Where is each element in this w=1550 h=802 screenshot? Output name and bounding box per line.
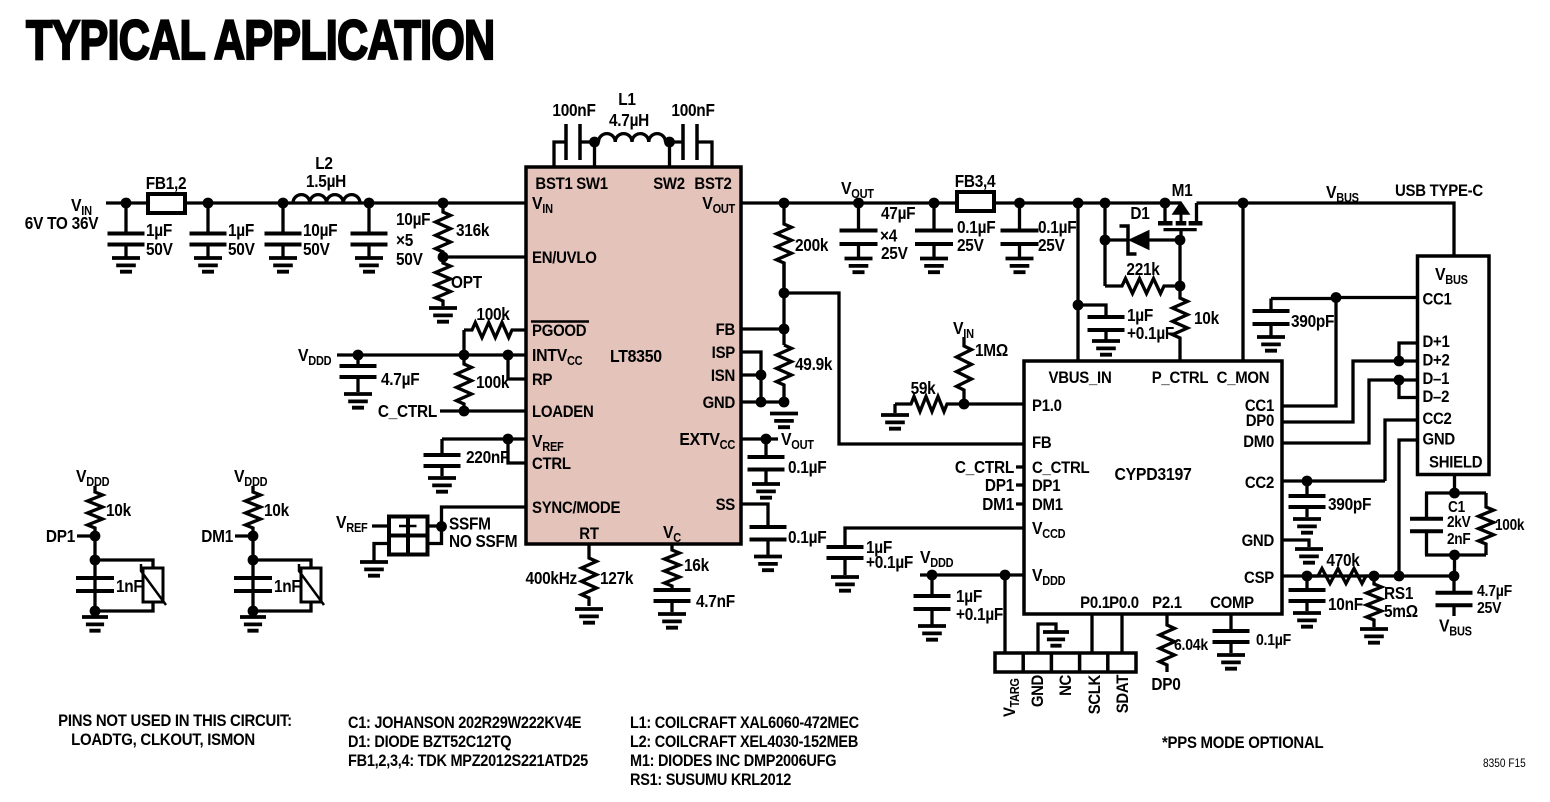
svg-text:4.7nF: 4.7nF: [696, 592, 735, 611]
svg-text:GND: GND: [1242, 532, 1274, 550]
wire VREF to switch: [372, 524, 389, 527]
wire switch gnd: [374, 544, 389, 562]
ground divider: [770, 414, 798, 428]
svg-text:59k: 59k: [911, 379, 937, 398]
wire divider mid: [782, 262, 785, 345]
junction SSFM: [436, 521, 447, 532]
wire cap lead: [367, 245, 370, 257]
svg-text:D+2: D+2: [1423, 352, 1450, 370]
svg-text:390pF: 390pF: [1328, 495, 1371, 514]
wire cap lead: [764, 439, 767, 455]
wire SS: [741, 504, 768, 525]
svg-text:USB TYPE-C: USB TYPE-C: [1395, 182, 1484, 200]
svg-text:SYNC/MODE: SYNC/MODE: [532, 499, 621, 517]
wire cap lead: [440, 466, 443, 476]
wire cap lead: [356, 355, 359, 364]
svg-text:C_CTRL: C_CTRL: [1032, 459, 1090, 477]
connector USB TYPE-C body: [1418, 256, 1490, 475]
svg-text:RS1: RS1: [1384, 584, 1413, 603]
svg-text:L2: L2: [315, 154, 333, 173]
junction DP1 top: [90, 555, 101, 566]
inductor L2: [293, 195, 360, 203]
wire INTVCC: [337, 353, 526, 356]
junction FB pin: [779, 324, 790, 335]
resistor 10k DM1: [246, 486, 261, 536]
wire cap to SW1: [580, 140, 595, 143]
junction RS1 top: [1369, 571, 1380, 582]
junction SW1: [589, 137, 600, 148]
wire cap lead: [932, 203, 935, 231]
wire switch no-ssfm link: [428, 527, 442, 544]
svg-text:DM1: DM1: [982, 495, 1014, 514]
svg-text:100k: 100k: [1495, 517, 1525, 534]
wire SHIELD stub: [1453, 476, 1456, 493]
wire VCCD: [845, 528, 1024, 545]
capacitor 10nF: [1289, 590, 1326, 601]
wire cap lead: [1229, 642, 1232, 653]
capacitor 4.7nF VC: [654, 590, 691, 601]
svg-text:LOADTG, CLKOUT, ISMON: LOADTG, CLKOUT, ISMON: [71, 731, 255, 749]
capacitor 1nF DM1: [234, 578, 272, 591]
junction DM1 bottom: [248, 606, 259, 617]
capacitor 1uF+0.1uF VCCD: [827, 547, 864, 558]
junction P1.0: [959, 399, 970, 410]
svg-text:10k: 10k: [264, 501, 290, 520]
wire varistor top DP1: [95, 560, 153, 568]
resistor 10k DP1: [88, 486, 103, 536]
svg-text:6.04k: 6.04k: [1174, 636, 1209, 654]
svg-text:RP: RP: [532, 371, 553, 389]
wire CC2 link: [1385, 420, 1417, 481]
wire VBUS rail: [1197, 203, 1455, 257]
svg-text:50V: 50V: [146, 240, 173, 259]
resistor 6.04k: [1160, 614, 1175, 672]
wire COMP: [1229, 614, 1232, 629]
svg-text:10nF: 10nF: [1328, 595, 1363, 614]
capacitor C1 2kV 2nF: [1410, 519, 1443, 531]
junction 0.1uF tap b: [1014, 198, 1025, 209]
ground 47uF: [845, 259, 873, 273]
junction D1 riser: [1100, 198, 1111, 209]
svg-text:NC: NC: [1057, 674, 1075, 696]
wire DM1 stub: [235, 534, 253, 537]
svg-text:200k: 200k: [795, 236, 829, 255]
wire D-1 link: [1282, 380, 1417, 443]
wire varistor bottom DP1: [95, 602, 153, 611]
ground input cap3: [269, 258, 297, 272]
wire cap lead: [1305, 576, 1308, 588]
wire CTRL bracket: [508, 439, 526, 463]
capacitor 0.1uF COMP: [1213, 631, 1250, 642]
svg-text:4.7µF: 4.7µF: [1477, 582, 1512, 600]
ground 390pF CC2: [1293, 519, 1321, 533]
wire shield net top: [1425, 491, 1486, 494]
capacitor 0.1uF 25V #2: [1001, 231, 1039, 245]
wire cap lead: [281, 245, 284, 257]
ground RS1: [1360, 629, 1388, 643]
svg-text:SW1: SW1: [576, 175, 608, 193]
wire VOUT rail left: [741, 201, 957, 204]
svg-text:FB: FB: [716, 321, 735, 339]
svg-text:FB1,2,3,4: TDK MPZ2012S221ATD2: FB1,2,3,4: TDK MPZ2012S221ATD25: [348, 752, 589, 770]
wire cap lead: [1104, 330, 1107, 340]
wire GND cypd: [1282, 540, 1309, 547]
svg-text:D1: D1: [1130, 204, 1149, 223]
wire cap lead: [930, 609, 933, 625]
wire VIN rail: [106, 201, 526, 204]
capacitor 390pF CC2: [1289, 496, 1326, 507]
junction FB out: [203, 198, 214, 209]
svg-text:390pF: 390pF: [1291, 312, 1334, 331]
ground SS cap: [754, 557, 782, 571]
svg-text:4.7µH: 4.7µH: [609, 111, 649, 130]
wire RP bracket: [508, 355, 526, 379]
wire P0.0: [1120, 614, 1123, 653]
junction D+: [1394, 356, 1405, 367]
ground VCCD cap: [831, 577, 859, 591]
svg-text:SHIELD: SHIELD: [1429, 454, 1482, 472]
ground EXTVCC cap: [752, 484, 780, 498]
transistor M1 body arrow: [1174, 204, 1187, 223]
svg-text:4.7µF: 4.7µF: [381, 370, 420, 389]
junction 47uF tap: [853, 198, 864, 209]
svg-text:49.9k: 49.9k: [795, 355, 833, 374]
wire PGOOD riser: [462, 330, 465, 355]
wire DP1 stub: [1016, 483, 1024, 486]
junction VBUS_IN cap: [1073, 300, 1084, 311]
junction EXTVCC cap: [761, 434, 772, 445]
svg-text:C1: JOHANSON 202R29W222KV4E: C1: JOHANSON 202R29W222KV4E: [348, 714, 581, 732]
wire VREF pin: [442, 437, 526, 440]
junction shield bottom: [1449, 550, 1460, 561]
wire D-2 stub: [1399, 380, 1417, 398]
svg-text:1µF: 1µF: [228, 221, 254, 240]
wire cap lead: [1305, 481, 1308, 494]
capacitor 1uF 50V input #1: [108, 234, 145, 245]
junction CC2 cap: [1302, 476, 1313, 487]
svg-text:1µF: 1µF: [146, 221, 172, 240]
inductor L1: [599, 134, 666, 142]
wire cap lead: [1269, 299, 1272, 310]
svg-text:47µF: 47µF: [881, 204, 916, 223]
svg-text:1µF: 1µF: [1127, 306, 1153, 325]
svg-text:D1: DIODE BZT52C12TQ: D1: DIODE BZT52C12TQ: [348, 733, 511, 751]
capacitor 100nF BST1: [566, 124, 580, 160]
wire cap lead: [766, 540, 769, 556]
resistor 59k: [895, 397, 964, 412]
svg-text:VBUS_IN: VBUS_IN: [1049, 369, 1112, 387]
resistor RS1 5m: [1367, 576, 1382, 627]
svg-text:400kHz: 400kHz: [526, 569, 577, 588]
junction CC1: [1331, 292, 1342, 303]
svg-text:CC2: CC2: [1245, 474, 1274, 492]
svg-text:2nF: 2nF: [1447, 531, 1471, 548]
junction VDDD cap: [927, 570, 938, 581]
wire header gnd jog: [1038, 624, 1056, 653]
wire cap lead: [1305, 507, 1308, 517]
wire cap lead: [367, 203, 370, 233]
svg-text:470k: 470k: [1326, 551, 1360, 570]
wire M1 top stub: [1165, 201, 1181, 204]
wire D1 anode lead: [1149, 238, 1180, 241]
ground cypd: [1295, 549, 1323, 563]
ground VDDD cap: [918, 626, 946, 640]
ground 0.1uF a: [920, 259, 948, 273]
capacitor 4.7uF 25V VBUS: [1436, 593, 1473, 605]
junction 4.7uF tap: [353, 350, 364, 361]
wire cap lead: [1018, 203, 1021, 231]
junction DP1 bottom: [90, 606, 101, 617]
resistor 16k VC: [665, 544, 680, 588]
wire cap branch: [1078, 305, 1106, 315]
overline PGOOD: [531, 320, 589, 323]
svg-text:0.1µF: 0.1µF: [788, 528, 827, 547]
junction FB link: [779, 288, 790, 299]
svg-text:1µF: 1µF: [956, 587, 982, 606]
wire C_CTRL stub: [1016, 465, 1024, 468]
ferrite bead FB3,4: [957, 192, 994, 211]
wire D+2 link: [1282, 361, 1417, 422]
svg-text:DM1: DM1: [201, 527, 233, 546]
wire CC1 riser: [1282, 298, 1336, 407]
svg-text:OPT: OPT: [451, 273, 482, 292]
junction DM1 top: [248, 555, 259, 566]
junction CTRL bracket: [503, 434, 514, 445]
wire varistor top DM1: [253, 560, 311, 568]
junction C_MON riser: [1238, 198, 1249, 209]
svg-text:50V: 50V: [396, 250, 423, 269]
capacitor 47uF x4 25V: [840, 231, 878, 245]
svg-text:CC2: CC2: [1423, 410, 1452, 428]
junction VBUS_IN riser: [1073, 198, 1084, 209]
svg-text:CSP: CSP: [1244, 569, 1275, 587]
resistor 100k LOADEN: [457, 355, 472, 411]
svg-text:1MΩ: 1MΩ: [975, 341, 1008, 360]
wire D+1 stub: [1399, 343, 1417, 361]
svg-text:TYPICAL APPLICATION: TYPICAL APPLICATION: [26, 9, 494, 72]
svg-text:127k: 127k: [600, 569, 634, 588]
wire cap lead: [843, 558, 846, 575]
svg-text:BST1: BST1: [535, 175, 573, 193]
wire D1 cathode lead: [1105, 238, 1128, 241]
ground RT: [575, 609, 603, 623]
wire cap lead: [857, 203, 860, 231]
junction DM1: [248, 531, 259, 542]
svg-text:10k: 10k: [1194, 309, 1220, 328]
svg-text:50V: 50V: [303, 240, 330, 259]
capacitor 220nF: [424, 455, 461, 466]
junction L2 out: [364, 198, 375, 209]
connector programming header: [995, 653, 1136, 672]
svg-text:DM1: DM1: [1032, 496, 1063, 514]
svg-text:DP0: DP0: [1151, 675, 1180, 694]
wire switch to SYNC: [428, 524, 442, 527]
svg-text:L2: COILCRAFT XEL4030-152MEB: L2: COILCRAFT XEL4030-152MEB: [630, 733, 858, 751]
svg-text:SS: SS: [716, 496, 736, 514]
wire cap branch: [1425, 493, 1428, 517]
resistor 470k: [1307, 569, 1374, 584]
wire CSP row: [1282, 574, 1454, 577]
svg-text:FB3,4: FB3,4: [955, 172, 997, 191]
svg-text:LT8350: LT8350: [610, 346, 662, 366]
junction ISN: [756, 370, 767, 381]
svg-text:10k: 10k: [106, 501, 132, 520]
wire 59k gnd: [893, 404, 896, 413]
capacitor 1nF DP1: [76, 578, 114, 591]
ground 220nF: [428, 478, 456, 492]
svg-text:SW2: SW2: [653, 175, 685, 193]
svg-text:CTRL: CTRL: [532, 455, 571, 473]
svg-text:0.1µF: 0.1µF: [1256, 631, 1291, 649]
svg-text:LOADEN: LOADEN: [532, 403, 594, 421]
wire M1 source stub: [1163, 203, 1166, 223]
svg-text:5mΩ: 5mΩ: [1384, 602, 1418, 621]
svg-text:ISP: ISP: [712, 344, 736, 362]
junction RP bracket: [503, 350, 514, 361]
svg-text:P2.1: P2.1: [1152, 594, 1182, 612]
wire 390pF branch: [1271, 297, 1336, 300]
capacitor 10uF x5 50V: [351, 234, 388, 245]
svg-text:RS1: SUSUMU KRL2012: RS1: SUSUMU KRL2012: [630, 771, 792, 789]
capacitor 1uF 50V input #2: [190, 234, 227, 245]
capacitor 390pF CC1: [1253, 311, 1290, 324]
ground input cap2: [194, 258, 222, 272]
resistor 1M: [957, 337, 972, 404]
junction L2 in: [278, 198, 289, 209]
svg-text:L1: COILCRAFT XAL6060-472MEC: L1: COILCRAFT XAL6060-472MEC: [630, 714, 859, 732]
junction EN/UVLO: [438, 252, 449, 263]
svg-text:M1: DIODES INC DMP2006UFG: M1: DIODES INC DMP2006UFG: [630, 752, 836, 770]
wire BST2 riser: [697, 142, 712, 167]
svg-text:M1: M1: [1172, 181, 1193, 200]
ground DM1: [240, 617, 266, 631]
capacitor 0.1uF 25V #1: [915, 231, 953, 245]
varistor DM1: [299, 564, 324, 605]
ground COMP: [1217, 655, 1245, 669]
svg-text:RT: RT: [579, 525, 599, 543]
wire GND link: [1399, 440, 1417, 576]
junction shield top: [1449, 488, 1460, 499]
svg-text:DM0: DM0: [1243, 433, 1274, 451]
resistor 49.9k: [777, 345, 792, 402]
wire cap lead: [124, 203, 127, 233]
resistor OPT: [436, 257, 451, 306]
wire gate chain: [1178, 240, 1181, 296]
svg-text:PINS NOT USED IN THIS CIRCUIT:: PINS NOT USED IN THIS CIRCUIT:: [58, 712, 292, 730]
svg-text:2kV: 2kV: [1447, 514, 1471, 531]
svg-text:DP1: DP1: [1032, 477, 1061, 495]
ground 390pF CC1: [1257, 337, 1285, 351]
svg-text:×4: ×4: [880, 227, 898, 246]
capacitor 0.1uF SS: [750, 527, 787, 540]
ground 10nF: [1293, 613, 1321, 627]
svg-text:GND: GND: [1423, 431, 1455, 449]
junction D-: [1394, 375, 1405, 386]
svg-text:C_CTRL: C_CTRL: [955, 458, 1014, 477]
svg-text:100k: 100k: [476, 305, 510, 324]
wire C_MON riser: [1241, 203, 1244, 361]
junction LOADEN: [459, 406, 470, 417]
svg-text:P1.0: P1.0: [1032, 397, 1062, 415]
resistor 10k gate: [1173, 296, 1188, 361]
svg-text:D+1: D+1: [1423, 333, 1450, 351]
resistor 221k: [1105, 279, 1180, 294]
svg-text:10µF: 10µF: [303, 221, 338, 240]
wire shield to CSP: [1453, 555, 1456, 576]
wire cap branch: [1425, 531, 1428, 555]
junction 100k riser: [459, 350, 470, 361]
svg-text:DP0: DP0: [1246, 412, 1275, 430]
resistor 127k RT: [582, 544, 597, 606]
ground switch: [360, 562, 388, 576]
wire VBUS_IN riser: [1076, 203, 1079, 361]
wire M1 gate tap: [1179, 231, 1182, 241]
wire FB link to CYPD: [784, 293, 1024, 444]
svg-text:25V: 25V: [1477, 599, 1501, 617]
junction DP1: [90, 531, 101, 542]
svg-text:50V: 50V: [228, 240, 255, 259]
wire cap lead: [1018, 244, 1021, 258]
ground input cap1: [112, 258, 140, 272]
ground 59k: [881, 415, 909, 429]
ground OPT: [429, 308, 457, 322]
wire DP1 stub: [77, 534, 95, 537]
svg-text:L1: L1: [618, 90, 636, 109]
junction D1 cathode: [1100, 235, 1111, 246]
junction 200k tap: [779, 198, 790, 209]
svg-text:221k: 221k: [1126, 260, 1160, 279]
svg-text:*PPS MODE OPTIONAL: *PPS MODE OPTIONAL: [1162, 734, 1324, 752]
junction input C1: [121, 198, 132, 209]
svg-text:FB: FB: [1032, 434, 1051, 452]
wire cap lead: [764, 470, 767, 484]
svg-text:COMP: COMP: [1210, 594, 1254, 612]
ferrite bead FB1,2: [148, 194, 185, 213]
svg-text:DP1: DP1: [985, 476, 1014, 495]
wire SW1 riser: [593, 142, 596, 167]
junction 0.1uF tap a: [929, 198, 940, 209]
wire P0.1: [1090, 614, 1093, 653]
svg-text:P_CTRL: P_CTRL: [1152, 369, 1209, 387]
junction VTARG riser: [1000, 570, 1011, 581]
junction 316k tap: [438, 198, 449, 209]
junction SW2: [664, 137, 675, 148]
svg-text:NO SSFM: NO SSFM: [449, 532, 517, 551]
wire cap lead: [1452, 605, 1455, 616]
svg-text:DP1: DP1: [46, 527, 75, 546]
wire SW2 riser: [668, 142, 671, 167]
svg-text:100nF: 100nF: [552, 101, 595, 120]
junction gate-D1: [1175, 235, 1186, 246]
wire SYNC/MODE: [442, 507, 527, 527]
svg-text:0.1µF: 0.1µF: [788, 458, 827, 477]
wire cap lead: [670, 601, 673, 612]
wire varistor bottom DM1: [253, 602, 311, 611]
svg-text:×5: ×5: [396, 231, 413, 250]
svg-text:EN/UVLO: EN/UVLO: [532, 249, 597, 267]
wire VTARG riser: [1003, 575, 1006, 653]
ground DP1: [82, 617, 108, 631]
wire ISP: [741, 352, 761, 402]
capacitor 10uF 50V input: [265, 234, 302, 245]
op-amp U1 LT8350 body: [526, 167, 741, 544]
wire EN/UVLO: [443, 255, 526, 258]
capacitor 100nF BST2: [683, 124, 697, 160]
wire FB pin: [741, 327, 784, 330]
svg-text:0.1µF: 0.1µF: [957, 218, 996, 237]
svg-text:PGOOD: PGOOD: [532, 322, 586, 340]
svg-text:P0.0: P0.0: [1109, 594, 1139, 612]
